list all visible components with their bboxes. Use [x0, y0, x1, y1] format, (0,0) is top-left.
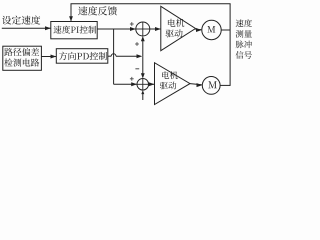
- wire: set-speed input into PI controller: [2, 26, 51, 30]
- sign + at S1 bottom input: [135, 42, 139, 46]
- wire: S1 output to motor drive amp A1: [150, 27, 161, 31]
- label: 脉冲 (speed measurement pulse signal column): [236, 40, 252, 48]
- label: 方向PD控制: [59, 52, 107, 60]
- sign + at S2 left input: [130, 77, 134, 81]
- label: 速度PI控制: [54, 26, 97, 34]
- summing junction S2: [137, 79, 149, 91]
- sign + at S1 left input: [130, 22, 134, 26]
- node: branch of speed command at PI output: [113, 29, 115, 30]
- wire: speed command branch down to summing junction S2: [114, 29, 137, 86]
- label: 测量 (speed measurement pulse signal column): [236, 30, 252, 38]
- wire: A2 output to motor M2: [190, 83, 202, 87]
- wire: M2 tacho output to feedback rail: [220, 84, 230, 86]
- block: path deviation detection box 路径偏差检测电路: [3, 46, 42, 70]
- wire: PD output line with hop over branch wire: [108, 54, 143, 58]
- wire: deviation signal into PD controller: [41, 55, 56, 59]
- wire: PI output to summing junction S1: [97, 27, 136, 31]
- motor M1 circle: [202, 20, 221, 39]
- block: speed PI controller box 速度PI控制: [51, 22, 97, 39]
- label: 检测电路: [4, 58, 39, 66]
- label: 路径偏差: [4, 48, 39, 56]
- label: 电机 (A1): [168, 19, 184, 27]
- sign - at S2 top input: [135, 68, 139, 70]
- wire: PD correction down into S2 (-): [141, 56, 145, 78]
- wire: feedback stub into S2 bottom: [141, 90, 144, 100]
- label: 速度 (speed measurement pulse signal column): [236, 19, 252, 27]
- label: M (M2): [208, 81, 217, 88]
- wire: A1 output to motor M1: [196, 28, 202, 32]
- wire: PD correction up into S1 (+): [141, 36, 145, 56]
- label: 驱动 (A1): [166, 29, 183, 37]
- motor M2 circle: [202, 77, 220, 95]
- wire: right feedback rail: [229, 4, 231, 86]
- label: 电机 (A2): [162, 71, 178, 79]
- block: direction PD controller box 方向PD控制: [56, 49, 108, 64]
- label: 信号 (speed measurement pulse signal column): [236, 51, 252, 59]
- wire: speed feedback top line into PI controller: [69, 4, 231, 22]
- amp: motor drive triangle A1 电机驱动: [161, 6, 196, 50]
- label: M (M1): [207, 26, 215, 33]
- amp: motor drive triangle A2 电机驱动: [155, 63, 191, 105]
- summing junction S1: [136, 22, 150, 36]
- label: set-speed 设定速度: [2, 16, 40, 25]
- wire: S2 output to motor drive amp A2: [149, 82, 155, 86]
- label: speed feedback 速度反馈: [78, 6, 117, 15]
- wire: M1 tacho output to feedback rail: [221, 29, 230, 31]
- label: 驱动 (A2): [160, 82, 176, 90]
